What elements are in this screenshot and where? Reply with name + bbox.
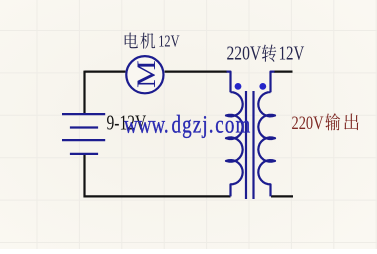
svg-text:www.dgzj.com: www.dgzj.com xyxy=(124,110,251,138)
svg-text:220V: 220V xyxy=(227,42,262,64)
svg-text:12V: 12V xyxy=(158,33,180,51)
svg-text:M: M xyxy=(132,60,161,88)
svg-text:12V: 12V xyxy=(279,41,305,64)
svg-text:220V: 220V xyxy=(292,112,324,133)
